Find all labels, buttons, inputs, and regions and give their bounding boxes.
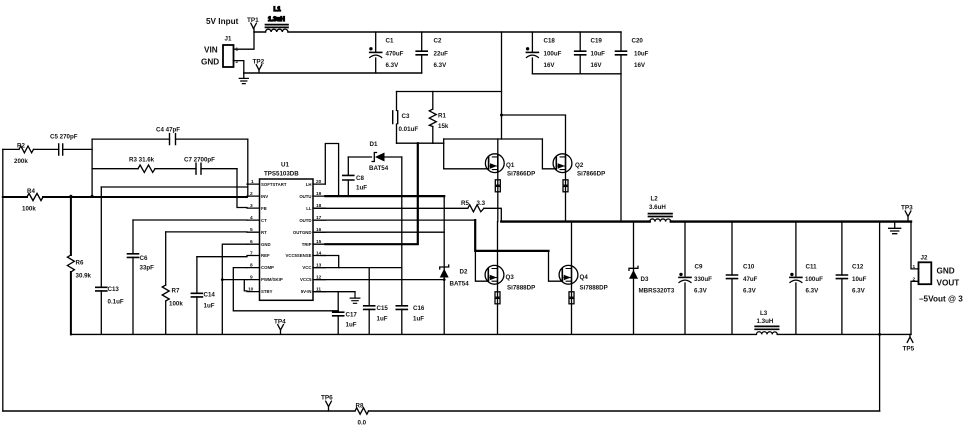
wire Q1 gate: [444, 168, 489, 170]
svg-text:2: 2: [236, 59, 239, 65]
svg-text:10uF: 10uF: [634, 51, 649, 58]
resistor R6: [67, 197, 91, 334]
wire C3/R1 box top: [397, 91, 502, 93]
wire OUTGND pin16: [315, 231, 444, 233]
resistor R8: [355, 403, 369, 427]
wire pin1 softstart: [101, 186, 247, 188]
inductor L3: [755, 310, 778, 334]
capacitor C10: [727, 222, 758, 335]
transistor Q2: [553, 154, 605, 222]
svg-text:TP5: TP5: [903, 346, 915, 353]
svg-text:RT: RT: [261, 230, 267, 235]
svg-text:16V: 16V: [544, 62, 556, 69]
wire pin14 VCC5SENSE: [321, 256, 339, 268]
resistor R2: [3, 143, 59, 166]
wire gate bus vertical: [443, 139, 445, 169]
svg-text:R3 31.6k: R3 31.6k: [129, 157, 155, 164]
svg-text:PWM/SKIP: PWM/SKIP: [261, 277, 283, 282]
svg-text:R4: R4: [27, 188, 35, 195]
svg-text:C6: C6: [140, 255, 148, 262]
svg-text:TP2: TP2: [253, 59, 265, 66]
capacitor C2: [416, 32, 448, 73]
wire pin7 REF: [197, 256, 247, 258]
svg-text:Q2: Q2: [575, 162, 584, 169]
svg-text:9: 9: [250, 275, 253, 281]
capacitor C15: [364, 268, 389, 335]
svg-text:J2: J2: [921, 255, 928, 262]
svg-text:3.3: 3.3: [477, 200, 486, 207]
capacitor C12: [836, 222, 866, 335]
wire switch node rail (bold): [501, 220, 911, 222]
capacitor C7: [184, 157, 237, 175]
svg-text:6.3V: 6.3V: [386, 62, 400, 69]
svg-text:VIN: VIN: [204, 46, 218, 55]
wire pin20 LH riser: [325, 144, 338, 197]
wire Q4 gate: [549, 251, 563, 281]
svg-text:200k: 200k: [14, 158, 28, 165]
wire pin5 RT: [166, 231, 247, 233]
capacitor C8: [343, 157, 367, 196]
svg-text:C17: C17: [346, 312, 358, 319]
wire bottom GND rail with R8: [3, 410, 880, 412]
U1 pin numbers left: [248, 179, 254, 293]
wire pin12 VCC5: [315, 279, 444, 281]
wire pin8 COMP: [233, 268, 338, 311]
connector J2: [913, 255, 960, 288]
svg-text:19: 19: [316, 191, 322, 197]
capacitor C14: [191, 257, 215, 335]
svg-text:0.01uF: 0.01uF: [399, 126, 419, 133]
svg-text:10uF: 10uF: [591, 51, 606, 58]
diode D1: [348, 141, 402, 172]
svg-text:Si7866DP: Si7866DP: [577, 171, 605, 178]
test point TP5: [903, 334, 915, 352]
wire low-side gate drive (bold): [475, 220, 548, 251]
wire +5V drop to FET drains: [501, 32, 503, 139]
wire TRIP sense (bold): [325, 143, 418, 244]
wire J2 VOUT pin to -5V rail: [911, 281, 919, 334]
svg-text:TP6: TP6: [321, 395, 333, 402]
ground at pin11: [350, 292, 360, 304]
capacitor C16: [396, 157, 425, 334]
svg-text:33pF: 33pF: [140, 265, 155, 272]
svg-text:1: 1: [913, 264, 916, 270]
wire -5V output rail: [71, 333, 911, 335]
svg-text:REF: REF: [261, 253, 270, 258]
svg-text:D3: D3: [641, 276, 649, 283]
svg-text:8: 8: [250, 263, 253, 269]
svg-text:15k: 15k: [438, 123, 449, 130]
svg-text:Si7888DP: Si7888DP: [580, 285, 608, 292]
test point TP1: [247, 17, 259, 32]
wire OUTU drive (bold): [325, 195, 444, 197]
svg-text:C3: C3: [402, 113, 410, 120]
svg-text:R5: R5: [461, 200, 469, 207]
svg-text:VCC5: VCC5: [300, 277, 312, 282]
svg-text:C1: C1: [386, 38, 394, 45]
svg-text:D1: D1: [370, 141, 378, 148]
svg-text:C13: C13: [108, 286, 120, 293]
svg-text:L1: L1: [274, 6, 282, 13]
wire pin6 GND drop: [222, 244, 247, 334]
svg-text:6.3V: 6.3V: [852, 288, 866, 295]
svg-text:OUTGND: OUTGND: [293, 230, 312, 235]
svg-text:C14: C14: [204, 292, 216, 299]
node junction dots: [69, 114, 881, 336]
svg-text:TP3: TP3: [901, 205, 913, 212]
transistor Q3: [485, 222, 535, 335]
inductor L1: [266, 6, 289, 32]
svg-text:MBRS320T3: MBRS320T3: [639, 288, 675, 295]
svg-text:C4 47pF: C4 47pF: [156, 127, 180, 134]
wire gate/drain bus horizontal: [444, 138, 543, 140]
resistor R5: [461, 200, 486, 212]
wire left edge vertical: [2, 149, 4, 411]
test point TP2: [253, 59, 265, 73]
svg-text:6.3V: 6.3V: [694, 288, 708, 295]
svg-text:TPS5103DB: TPS5103DB: [264, 171, 299, 178]
capacitor C3: [393, 92, 419, 144]
svg-text:16: 16: [316, 227, 322, 233]
wire feedback node vertical: [91, 139, 93, 196]
svg-text:L3: L3: [760, 310, 768, 317]
svg-text:C8: C8: [356, 175, 364, 182]
capacitor C19: [575, 32, 605, 74]
capacitor C20: [616, 32, 649, 221]
svg-text:Q3: Q3: [506, 274, 515, 281]
svg-text:C18: C18: [544, 38, 556, 45]
wire C4 to INV rail: [247, 139, 249, 196]
svg-text:330uF: 330uF: [694, 276, 712, 283]
wire Q2 drain feed: [502, 115, 566, 154]
svg-text:17: 17: [316, 215, 322, 221]
svg-text:100uF: 100uF: [805, 276, 823, 283]
transistor Q1: [485, 154, 535, 222]
diode D3: [629, 222, 675, 335]
svg-text:7: 7: [250, 251, 253, 257]
capacitor C17: [333, 292, 358, 335]
wire LL line with R5: [315, 208, 502, 221]
svg-text:–5Vout @ 3: –5Vout @ 3: [919, 295, 963, 304]
wire J1 pin1 to rail: [234, 32, 255, 49]
svg-text:2: 2: [913, 277, 916, 283]
svg-text:100k: 100k: [22, 206, 36, 213]
wire pin4 CT: [133, 219, 247, 221]
capacitor C9: [679, 222, 712, 335]
svg-text:1uF: 1uF: [377, 316, 388, 323]
connector J1: [201, 36, 239, 68]
svg-text:LL: LL: [306, 206, 312, 211]
svg-text:100uF: 100uF: [544, 51, 562, 58]
wire C3/R1 box bottom: [397, 142, 444, 144]
capacitor C6: [128, 220, 155, 334]
svg-text:CT: CT: [261, 218, 267, 223]
svg-text:6.3V: 6.3V: [806, 288, 820, 295]
svg-text:SOFTSTART: SOFTSTART: [261, 182, 287, 187]
svg-text:BAT54: BAT54: [450, 281, 470, 288]
svg-text:R2: R2: [17, 143, 25, 150]
diode D2: [440, 196, 469, 334]
test point TP3: [901, 205, 913, 222]
test point TP4: [274, 319, 286, 335]
transistor Q4: [559, 222, 608, 335]
svg-text:47uF: 47uF: [743, 276, 758, 283]
svg-text:5: 5: [250, 227, 253, 233]
wire Q1 drain: [497, 139, 499, 154]
svg-text:L2: L2: [651, 196, 659, 203]
wire FB to pin3: [237, 169, 247, 208]
inductor L2: [649, 196, 673, 222]
svg-text:J1: J1: [225, 36, 232, 43]
svg-text:3.6uH: 3.6uH: [649, 204, 666, 211]
svg-text:1uF: 1uF: [413, 316, 424, 323]
svg-text:1uF: 1uF: [346, 322, 357, 329]
U1 pin numbers right: [316, 179, 322, 293]
svg-text:R7: R7: [172, 288, 180, 295]
wire Q3 gate: [475, 251, 488, 281]
svg-text:1.3uH: 1.3uH: [757, 318, 774, 325]
svg-text:OUTU: OUTU: [299, 194, 311, 199]
wire pin10 STBY: [244, 280, 247, 291]
svg-text:C19: C19: [591, 38, 603, 45]
svg-text:3: 3: [250, 203, 253, 209]
svg-text:C5 270pF: C5 270pF: [50, 134, 78, 141]
svg-text:INV: INV: [261, 194, 268, 199]
svg-text:1.3uH: 1.3uH: [268, 16, 285, 23]
U1 right pin stubs 20-11: [313, 184, 325, 292]
svg-text:15: 15: [316, 239, 322, 245]
resistor R7: [162, 232, 183, 335]
capacitor C4: [92, 127, 248, 145]
svg-text:TRIP: TRIP: [302, 242, 312, 247]
svg-text:C2: C2: [434, 38, 442, 45]
svg-text:10: 10: [248, 287, 254, 293]
svg-text:10uF: 10uF: [852, 276, 867, 283]
svg-text:5V-IN: 5V-IN: [301, 289, 312, 294]
svg-text:Q1: Q1: [506, 162, 515, 169]
wire J1 pin2: [234, 61, 244, 73]
wire pin11 5V-IN: [315, 291, 355, 293]
svg-text:C16: C16: [413, 305, 425, 312]
svg-text:100k: 100k: [169, 301, 183, 308]
svg-text:20: 20: [316, 179, 322, 185]
svg-text:16V: 16V: [634, 62, 646, 69]
svg-text:470uF: 470uF: [386, 51, 404, 58]
svg-text:18: 18: [316, 203, 322, 209]
svg-text:STBY: STBY: [261, 289, 273, 294]
wire pin9 PWM/SKIP: [222, 279, 247, 281]
svg-text:Si7866DP: Si7866DP: [507, 171, 535, 178]
svg-text:R1: R1: [438, 113, 446, 120]
svg-text:0.1uF: 0.1uF: [108, 299, 124, 306]
test point TP6: [321, 395, 333, 412]
wire C18 group bottom: [532, 73, 621, 75]
svg-text:OUTD: OUTD: [299, 218, 311, 223]
svg-text:R8: R8: [356, 403, 364, 410]
svg-text:2: 2: [250, 191, 253, 197]
svg-text:GND: GND: [261, 242, 271, 247]
svg-text:C20: C20: [632, 38, 644, 45]
capacitor C5: [50, 134, 92, 156]
capacitor C18: [526, 32, 562, 74]
svg-text:6.3V: 6.3V: [743, 288, 757, 295]
svg-text:C15: C15: [377, 305, 389, 312]
capacitor C11: [790, 222, 823, 335]
svg-text:GND: GND: [201, 58, 219, 67]
svg-text:U1: U1: [281, 162, 289, 169]
wire INV rail (bold) with resistor R4: [3, 196, 27, 198]
svg-text:6: 6: [250, 239, 253, 245]
svg-text:C11: C11: [806, 264, 818, 271]
svg-text:4: 4: [250, 215, 253, 221]
svg-text:Si7888DP: Si7888DP: [507, 285, 535, 292]
svg-text:30.9k: 30.9k: [76, 273, 92, 280]
svg-text:COMP: COMP: [261, 265, 274, 270]
svg-text:VOUT: VOUT: [937, 279, 960, 288]
svg-text:1: 1: [251, 179, 254, 185]
wire rail to J2 GND pin: [911, 222, 919, 269]
svg-text:C9: C9: [695, 264, 703, 271]
svg-text:16V: 16V: [591, 62, 603, 69]
svg-text:C7 2700pF: C7 2700pF: [184, 157, 215, 164]
svg-text:TP4: TP4: [274, 319, 286, 326]
U1 left pin stubs 1-10: [247, 184, 260, 292]
ground at J1: [239, 73, 248, 84]
svg-text:BAT54: BAT54: [369, 165, 389, 172]
svg-text:D2: D2: [460, 269, 468, 276]
svg-text:1uF: 1uF: [204, 303, 215, 310]
svg-text:R6: R6: [76, 260, 84, 267]
svg-text:22uF: 22uF: [434, 51, 449, 58]
wire Q2 gate: [542, 139, 556, 169]
svg-text:GND: GND: [937, 267, 955, 276]
svg-text:C12: C12: [852, 264, 864, 271]
capacitor C13: [96, 187, 124, 334]
svg-text:VCC: VCC: [302, 265, 311, 270]
svg-text:5V Input: 5V Input: [206, 17, 239, 26]
svg-text:0.0: 0.0: [358, 420, 367, 427]
wire output GND drop to bottom rail: [879, 222, 881, 411]
svg-text:Q4: Q4: [580, 274, 589, 281]
IC U1 TPS5103DB: [260, 162, 314, 301]
wire top +5V rail: [254, 31, 621, 33]
svg-text:VCC5SENSE: VCC5SENSE: [285, 253, 311, 258]
U1 pin names right: [285, 182, 312, 294]
svg-text:1uF: 1uF: [356, 185, 367, 192]
svg-text:TP1: TP1: [247, 17, 259, 24]
svg-text:FB: FB: [261, 206, 267, 211]
svg-text:C10: C10: [743, 264, 755, 271]
U1 pin names left: [261, 182, 287, 294]
wire OUTD pin17: [315, 219, 475, 221]
svg-text:6.3V: 6.3V: [434, 62, 448, 69]
wire pin13 VCC: [315, 267, 402, 269]
svg-text:LH: LH: [306, 182, 312, 187]
resistor R1: [429, 92, 449, 144]
resistor R3: [92, 157, 196, 173]
capacitor C1: [369, 32, 403, 73]
ground at output rail: [889, 222, 901, 234]
wire input GND rail: [244, 72, 422, 74]
